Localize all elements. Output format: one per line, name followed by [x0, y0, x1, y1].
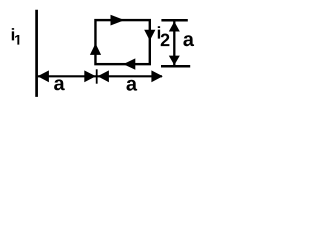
label i2 : subscript 2 [161, 34, 170, 47]
arrowhead on loop right side (points down) [144, 30, 155, 41]
dimension a (loop height): down arrowhead [169, 56, 180, 66]
dimension a (loop height): bottom bar [161, 65, 190, 68]
dimension a (loop width): line [97, 75, 162, 77]
arrowhead on loop top side (points right) [111, 15, 125, 26]
wire (long straight vertical wire carrying current i1) [35, 10, 38, 97]
square loop (current i2) [95, 20, 149, 64]
label i1 : letter i [12, 28, 14, 40]
dimension a (loop height): up arrowhead [169, 22, 180, 32]
dimension a (wire to loop): right arrowhead [84, 70, 96, 82]
dimension a (loop height): vertical line [173, 21, 175, 66]
dimension tick under loop left side [96, 69, 98, 83]
dimension a (loop width): right arrowhead [151, 70, 162, 82]
dimension a (loop height): top bar [161, 19, 187, 22]
arrowhead on loop bottom side (points left) [123, 58, 135, 69]
dimension a (wire to loop): left arrowhead [38, 70, 49, 82]
dimension a (wire to loop): line [38, 75, 96, 77]
label i2 : letter i [158, 26, 160, 38]
arrowhead on loop left side (points up) [90, 43, 101, 55]
label a (loop width dimension) [126, 80, 137, 91]
label a (left dimension) [54, 79, 65, 90]
label a (loop height dimension) [183, 35, 194, 46]
dimension a (loop width): left arrowhead [98, 70, 109, 82]
label i1 : subscript 1 [15, 35, 19, 45]
